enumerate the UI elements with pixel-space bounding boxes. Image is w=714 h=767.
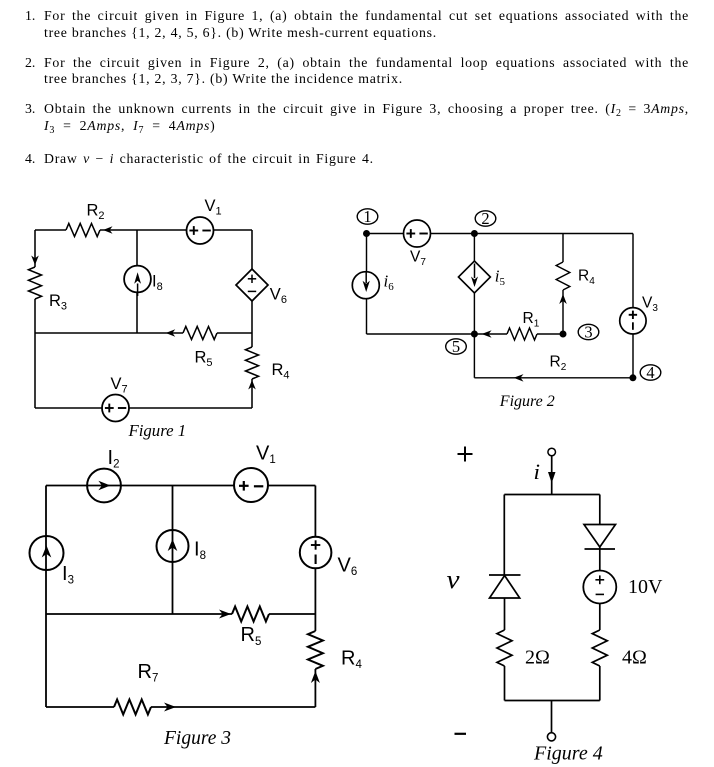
svg-text:I8: I8 (194, 539, 206, 563)
svg-text:R5: R5 (241, 624, 262, 648)
svg-text:V1: V1 (205, 197, 222, 218)
svg-text:R2: R2 (550, 354, 567, 374)
svg-text:10V: 10V (628, 576, 663, 598)
svg-text:R7: R7 (138, 661, 159, 685)
svg-text:4: 4 (646, 363, 654, 382)
svg-text:3: 3 (584, 323, 592, 342)
svg-text:Figure 1: Figure 1 (128, 421, 187, 440)
svg-text:Figure 2: Figure 2 (499, 393, 555, 410)
svg-text:R4: R4 (272, 361, 290, 382)
svg-text:R2: R2 (87, 202, 105, 223)
svg-text:R3: R3 (49, 292, 67, 313)
svg-text:V6: V6 (270, 286, 287, 307)
svg-text:5: 5 (452, 337, 460, 356)
svg-text:Figure 3: Figure 3 (163, 728, 231, 749)
svg-text:i6: i6 (384, 272, 395, 294)
svg-text:R1: R1 (523, 310, 540, 330)
svg-text:I3: I3 (62, 563, 74, 587)
svg-text:i: i (534, 459, 541, 484)
svg-text:4Ω: 4Ω (622, 647, 647, 669)
svg-text:i5: i5 (495, 267, 506, 289)
svg-text:I8: I8 (152, 273, 163, 294)
svg-text:I2: I2 (108, 447, 120, 471)
svg-text:V7: V7 (111, 375, 128, 396)
svg-text:V1: V1 (256, 443, 276, 467)
svg-text:1: 1 (363, 207, 371, 226)
svg-text:V6: V6 (338, 554, 358, 578)
svg-text:R5: R5 (195, 349, 213, 370)
svg-text:2: 2 (481, 209, 489, 228)
svg-text:R4: R4 (578, 268, 595, 288)
svg-text:V7: V7 (410, 249, 426, 269)
svg-text:R4: R4 (341, 648, 362, 672)
svg-text:v: v (447, 565, 461, 594)
svg-text:Figure 4: Figure 4 (533, 743, 603, 765)
svg-text:V3: V3 (642, 295, 658, 315)
svg-text:2Ω: 2Ω (525, 647, 550, 669)
